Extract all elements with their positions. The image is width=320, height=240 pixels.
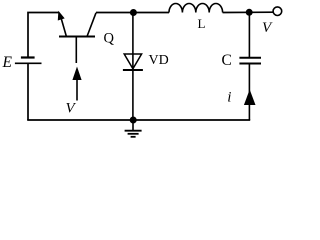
junction node at capacitor top	[246, 9, 253, 16]
wire top rail from Q collector to inductor	[96, 12, 169, 14]
svg-text:E: E	[2, 54, 13, 71]
svg-text:V: V	[262, 20, 273, 36]
wire top-left segment from battery corner to Q emitter	[28, 13, 59, 58]
svg-text:Q: Q	[104, 31, 115, 47]
svg-text:V: V	[66, 100, 77, 116]
ground	[125, 120, 142, 137]
base drive arrow V	[72, 67, 81, 101]
inductor L	[169, 4, 223, 13]
battery E	[15, 58, 42, 64]
transistor Q	[58, 11, 96, 63]
svg-text:i: i	[227, 90, 231, 106]
wire capacitor branch upper	[248, 12, 250, 57]
wire bottom rail	[27, 119, 250, 121]
output terminal	[273, 7, 282, 16]
svg-text:C: C	[222, 52, 232, 69]
junction node at ground	[130, 117, 137, 124]
diode VD	[123, 13, 143, 121]
svg-text:VD: VD	[149, 53, 169, 68]
wire capacitor branch lower to bottom rail	[248, 64, 250, 121]
junction node at diode top	[130, 9, 137, 16]
capacitor C	[239, 58, 261, 64]
wire left branch battery to bottom rail	[27, 63, 29, 120]
current arrow i	[244, 90, 256, 106]
svg-text:L: L	[198, 16, 206, 31]
wire top rail inductor to output terminal	[223, 11, 274, 13]
